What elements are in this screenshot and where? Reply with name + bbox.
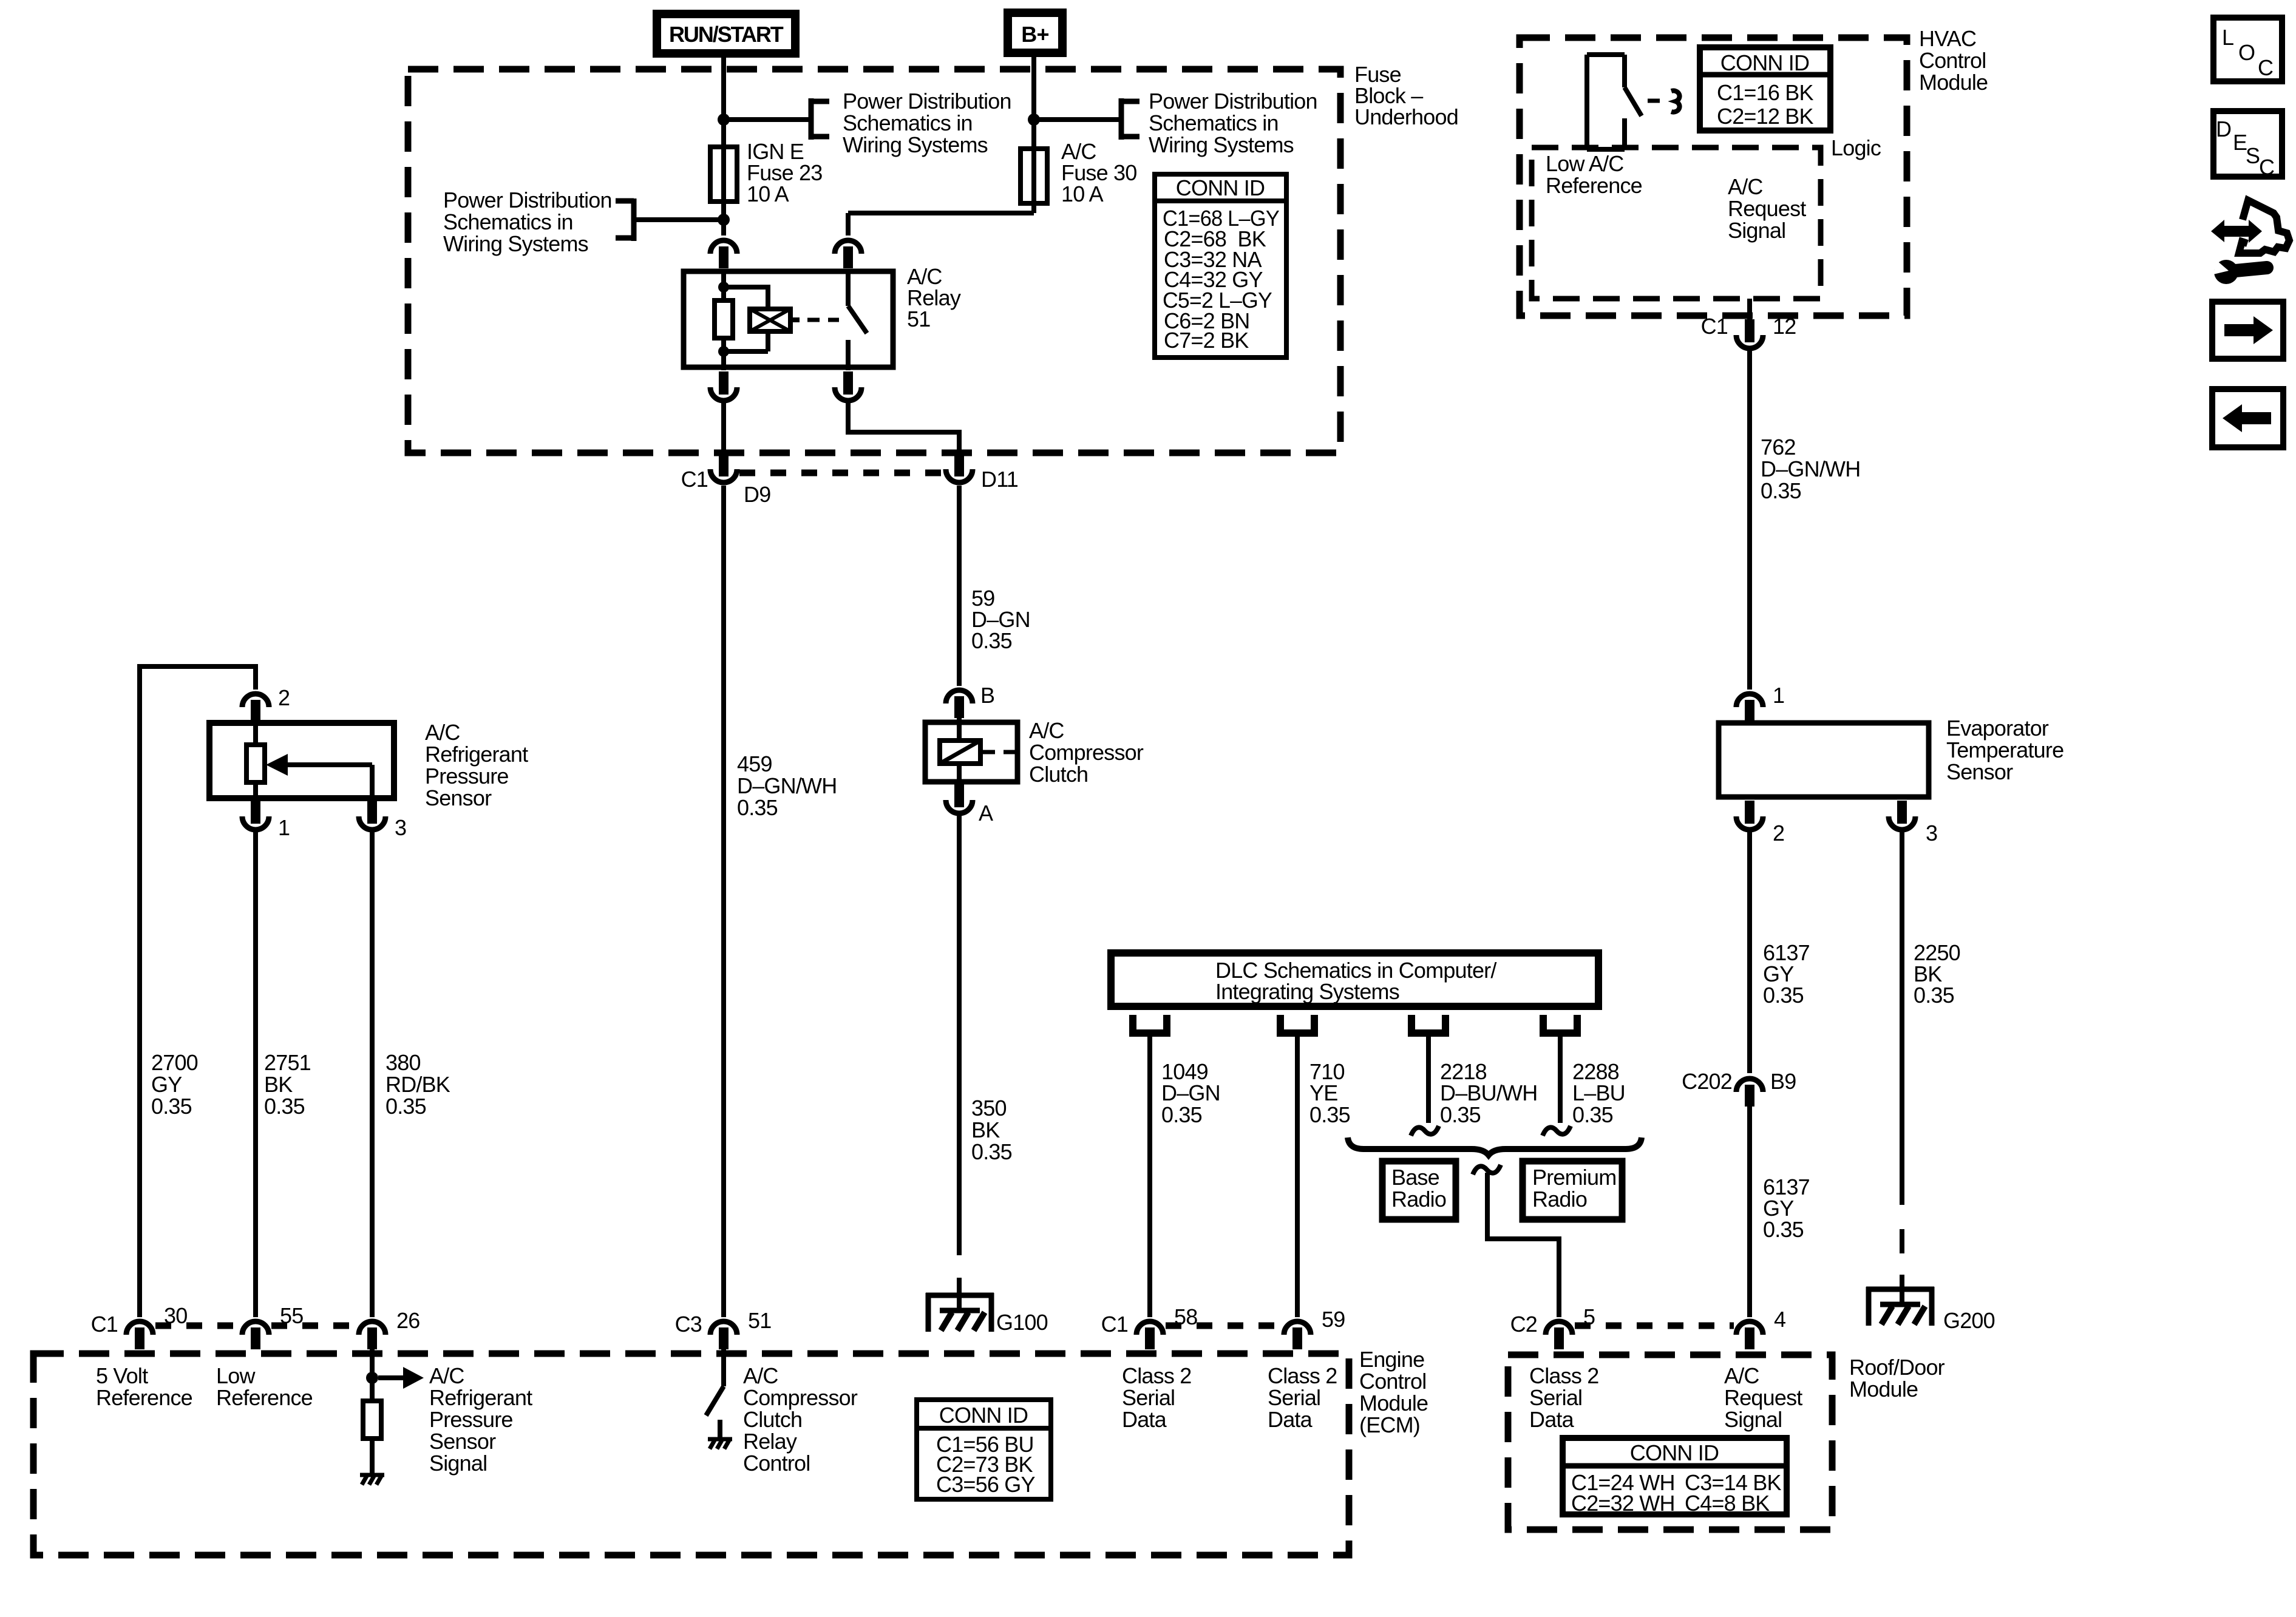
svg-text:26: 26 bbox=[396, 1308, 419, 1333]
svg-text:0.35: 0.35 bbox=[1161, 1102, 1202, 1127]
svg-text:Engine: Engine bbox=[1359, 1347, 1424, 1372]
svg-text:2: 2 bbox=[1773, 821, 1784, 846]
svg-text:Signal: Signal bbox=[1724, 1407, 1782, 1432]
svg-text:O: O bbox=[2238, 40, 2255, 65]
svg-text:CONN ID: CONN ID bbox=[939, 1403, 1028, 1428]
svg-text:0.35: 0.35 bbox=[151, 1094, 192, 1119]
svg-text:Module: Module bbox=[1919, 70, 1988, 95]
svg-text:Underhood: Underhood bbox=[1354, 104, 1458, 129]
svg-text:Wiring Systems: Wiring Systems bbox=[1149, 132, 1294, 157]
svg-text:CONN ID: CONN ID bbox=[1720, 50, 1809, 75]
svg-text:C1: C1 bbox=[1701, 314, 1728, 339]
svg-text:Module: Module bbox=[1849, 1377, 1918, 1402]
svg-text:Schematics in: Schematics in bbox=[843, 110, 973, 135]
svg-text:Clutch: Clutch bbox=[743, 1407, 802, 1432]
svg-text:Schematics in: Schematics in bbox=[1149, 110, 1279, 135]
svg-text:Refrigerant: Refrigerant bbox=[429, 1385, 532, 1410]
svg-text:C1=16 BK: C1=16 BK bbox=[1717, 80, 1813, 105]
svg-text:Logic: Logic bbox=[1831, 135, 1881, 160]
svg-text:CONN ID: CONN ID bbox=[1176, 175, 1265, 200]
svg-text:10 A: 10 A bbox=[1061, 181, 1104, 206]
svg-text:12: 12 bbox=[1773, 314, 1796, 339]
svg-text:D: D bbox=[2216, 117, 2231, 141]
svg-text:Low: Low bbox=[216, 1363, 256, 1388]
svg-text:Signal: Signal bbox=[1728, 218, 1785, 243]
svg-text:Reference: Reference bbox=[1546, 173, 1642, 198]
svg-text:Control: Control bbox=[743, 1451, 810, 1476]
svg-text:C202: C202 bbox=[1682, 1069, 1732, 1094]
svg-text:10 A: 10 A bbox=[747, 181, 789, 206]
svg-text:A/C: A/C bbox=[743, 1363, 778, 1388]
svg-text:Request: Request bbox=[1724, 1385, 1802, 1410]
svg-text:0.35: 0.35 bbox=[264, 1094, 305, 1119]
svg-text:(ECM): (ECM) bbox=[1359, 1412, 1420, 1437]
svg-text:Class 2: Class 2 bbox=[1529, 1363, 1598, 1388]
svg-text:0.35: 0.35 bbox=[1763, 1217, 1804, 1242]
svg-text:C1: C1 bbox=[91, 1312, 118, 1337]
svg-text:Radio: Radio bbox=[1391, 1187, 1446, 1212]
svg-text:C2=32 WH: C2=32 WH bbox=[1571, 1491, 1675, 1516]
svg-text:459: 459 bbox=[737, 751, 772, 776]
svg-text:58: 58 bbox=[1174, 1304, 1197, 1329]
svg-text:A/C: A/C bbox=[1724, 1363, 1759, 1388]
svg-text:762: 762 bbox=[1761, 435, 1796, 459]
svg-text:Data: Data bbox=[1529, 1407, 1575, 1432]
svg-text:Sensor: Sensor bbox=[425, 785, 492, 810]
svg-text:0.35: 0.35 bbox=[737, 795, 778, 820]
svg-text:55: 55 bbox=[280, 1303, 303, 1328]
svg-text:380: 380 bbox=[385, 1050, 421, 1075]
svg-text:Evaporator: Evaporator bbox=[1946, 716, 2049, 741]
svg-text:Premium: Premium bbox=[1532, 1165, 1616, 1190]
svg-text:C1: C1 bbox=[681, 467, 708, 492]
svg-text:Reference: Reference bbox=[96, 1385, 192, 1410]
svg-text:0.35: 0.35 bbox=[1761, 478, 1801, 503]
svg-text:C2: C2 bbox=[1510, 1312, 1537, 1337]
svg-text:51: 51 bbox=[907, 307, 930, 331]
svg-text:Radio: Radio bbox=[1532, 1187, 1587, 1212]
svg-text:C4=8 BK: C4=8 BK bbox=[1685, 1491, 1770, 1516]
svg-text:Power Distribution: Power Distribution bbox=[843, 89, 1011, 114]
svg-text:C3=56 GY: C3=56 GY bbox=[936, 1472, 1035, 1497]
svg-text:5: 5 bbox=[1583, 1304, 1595, 1329]
svg-text:S: S bbox=[2246, 143, 2260, 168]
svg-text:0.35: 0.35 bbox=[1572, 1102, 1613, 1127]
svg-text:1: 1 bbox=[1773, 683, 1784, 708]
svg-text:0.35: 0.35 bbox=[1763, 983, 1804, 1008]
svg-text:1: 1 bbox=[278, 815, 290, 840]
svg-text:GY: GY bbox=[151, 1072, 182, 1097]
svg-text:Base: Base bbox=[1391, 1165, 1439, 1190]
svg-text:D11: D11 bbox=[981, 467, 1018, 492]
svg-text:G200: G200 bbox=[1943, 1308, 1995, 1333]
svg-text:5 Volt: 5 Volt bbox=[96, 1363, 148, 1388]
svg-text:D9: D9 bbox=[744, 482, 770, 507]
svg-text:C2=12 BK: C2=12 BK bbox=[1717, 104, 1813, 129]
svg-text:Compressor: Compressor bbox=[1029, 740, 1144, 765]
svg-text:Power Distribution: Power Distribution bbox=[443, 188, 612, 212]
svg-text:2700: 2700 bbox=[151, 1050, 198, 1075]
svg-text:59: 59 bbox=[1322, 1307, 1345, 1332]
svg-text:C: C bbox=[2258, 55, 2273, 80]
svg-text:2751: 2751 bbox=[264, 1050, 311, 1075]
svg-text:B9: B9 bbox=[1770, 1069, 1796, 1094]
svg-text:Power Distribution: Power Distribution bbox=[1149, 89, 1317, 114]
svg-text:Clutch: Clutch bbox=[1029, 762, 1088, 787]
svg-text:CONN ID: CONN ID bbox=[1630, 1440, 1719, 1465]
svg-text:0.35: 0.35 bbox=[1914, 983, 1954, 1008]
svg-text:0.35: 0.35 bbox=[971, 1139, 1012, 1164]
svg-text:Serial: Serial bbox=[1122, 1385, 1175, 1410]
svg-text:3: 3 bbox=[395, 815, 406, 840]
svg-text:Schematics in: Schematics in bbox=[443, 209, 573, 234]
svg-text:Reference: Reference bbox=[216, 1385, 313, 1410]
svg-text:Refrigerant: Refrigerant bbox=[425, 742, 528, 767]
svg-text:D–GN/WH: D–GN/WH bbox=[737, 773, 837, 798]
svg-text:51: 51 bbox=[748, 1308, 771, 1333]
svg-text:Class 2: Class 2 bbox=[1268, 1363, 1337, 1388]
svg-text:D–GN: D–GN bbox=[1161, 1080, 1220, 1105]
svg-text:A/C: A/C bbox=[1029, 718, 1064, 743]
svg-text:A/C: A/C bbox=[429, 1363, 464, 1388]
svg-text:Data: Data bbox=[1268, 1407, 1313, 1432]
svg-text:0.35: 0.35 bbox=[1440, 1102, 1481, 1127]
svg-text:Pressure: Pressure bbox=[425, 764, 509, 788]
svg-text:A/C: A/C bbox=[1728, 174, 1763, 199]
svg-text:C7=2 BK: C7=2 BK bbox=[1164, 328, 1249, 353]
svg-text:Serial: Serial bbox=[1268, 1385, 1320, 1410]
svg-text:BK: BK bbox=[264, 1072, 293, 1097]
svg-text:RD/BK: RD/BK bbox=[385, 1072, 450, 1097]
svg-text:0.35: 0.35 bbox=[1309, 1102, 1350, 1127]
svg-text:30: 30 bbox=[164, 1303, 187, 1328]
svg-text:Serial: Serial bbox=[1529, 1385, 1582, 1410]
svg-text:Temperature: Temperature bbox=[1946, 737, 2063, 762]
svg-text:Class 2: Class 2 bbox=[1122, 1363, 1191, 1388]
svg-text:0.35: 0.35 bbox=[385, 1094, 426, 1119]
svg-text:A/C: A/C bbox=[425, 720, 460, 745]
svg-text:Roof/Door: Roof/Door bbox=[1849, 1355, 1945, 1380]
svg-text:D–GN/WH: D–GN/WH bbox=[1761, 456, 1860, 481]
svg-text:Control: Control bbox=[1919, 48, 1986, 73]
svg-text:350: 350 bbox=[971, 1096, 1007, 1120]
svg-text:4: 4 bbox=[1774, 1307, 1785, 1332]
svg-text:Relay: Relay bbox=[743, 1429, 797, 1454]
svg-text:Request: Request bbox=[1728, 196, 1806, 221]
svg-text:BK: BK bbox=[971, 1117, 1000, 1142]
svg-text:Compressor: Compressor bbox=[743, 1385, 858, 1410]
svg-text:YE: YE bbox=[1309, 1080, 1337, 1105]
svg-text:Sensor: Sensor bbox=[1946, 759, 2013, 784]
svg-text:HVAC: HVAC bbox=[1919, 26, 1976, 51]
svg-text:Data: Data bbox=[1122, 1407, 1167, 1432]
svg-text:RUN/START: RUN/START bbox=[669, 22, 784, 47]
svg-text:G100: G100 bbox=[996, 1310, 1048, 1335]
svg-text:Control: Control bbox=[1359, 1369, 1426, 1394]
svg-text:Sensor: Sensor bbox=[429, 1429, 496, 1454]
svg-text:E: E bbox=[2233, 130, 2247, 155]
svg-text:Wiring Systems: Wiring Systems bbox=[843, 132, 988, 157]
svg-text:2: 2 bbox=[278, 685, 290, 710]
svg-text:C: C bbox=[2259, 155, 2274, 180]
svg-text:Integrating Systems: Integrating Systems bbox=[1215, 979, 1399, 1004]
svg-text:Signal: Signal bbox=[429, 1451, 487, 1476]
svg-text:A: A bbox=[979, 801, 993, 825]
svg-text:L: L bbox=[2222, 25, 2233, 50]
svg-text:D–BU/WH: D–BU/WH bbox=[1440, 1080, 1537, 1105]
svg-text:3: 3 bbox=[1926, 821, 1937, 846]
svg-text:L–BU: L–BU bbox=[1572, 1080, 1625, 1105]
svg-text:Module: Module bbox=[1359, 1391, 1428, 1415]
svg-text:Pressure: Pressure bbox=[429, 1407, 513, 1432]
svg-text:C3: C3 bbox=[675, 1312, 702, 1337]
svg-text:0.35: 0.35 bbox=[971, 628, 1012, 653]
svg-text:B: B bbox=[980, 683, 994, 708]
svg-text:Low A/C: Low A/C bbox=[1546, 151, 1623, 176]
svg-text:C1: C1 bbox=[1101, 1312, 1128, 1337]
svg-text:B+: B+ bbox=[1021, 22, 1048, 47]
svg-text:Wiring Systems: Wiring Systems bbox=[443, 231, 588, 256]
